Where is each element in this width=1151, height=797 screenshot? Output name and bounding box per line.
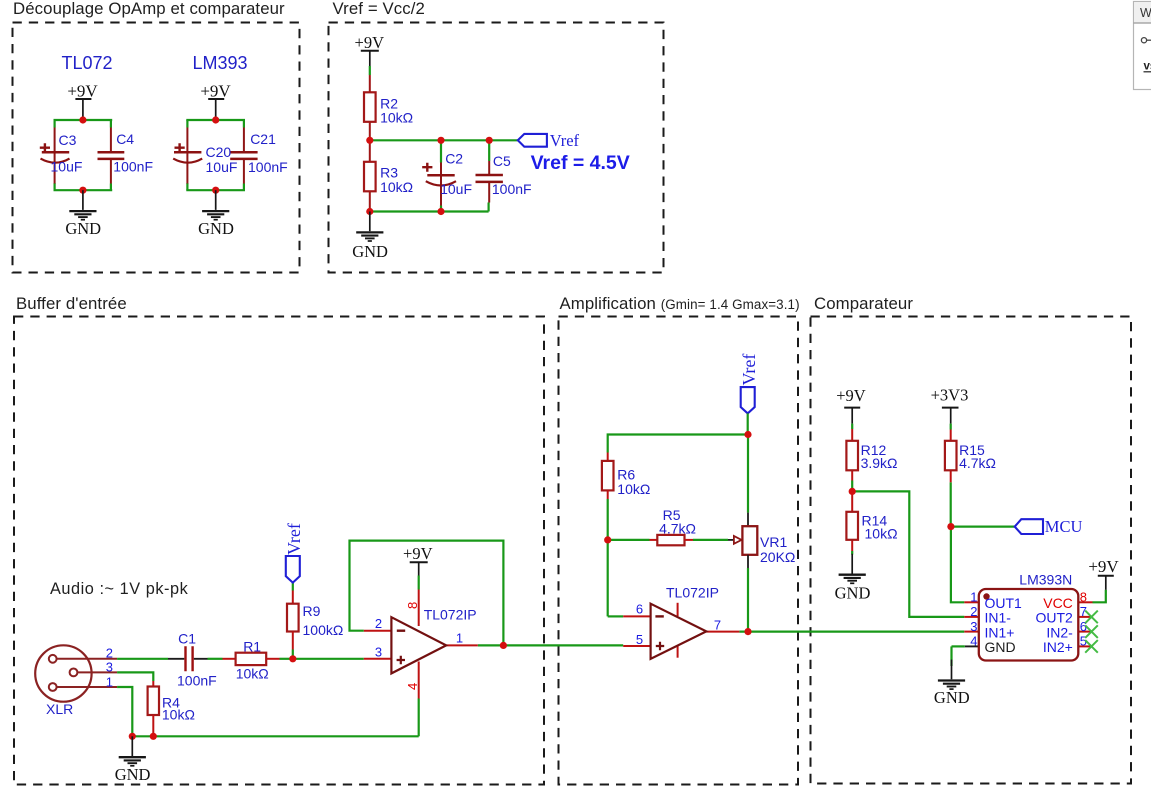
svg-text:C20: C20: [206, 144, 232, 160]
svg-text:R9: R9: [303, 603, 321, 619]
svg-text:10kΩ: 10kΩ: [162, 706, 195, 722]
svg-text:1: 1: [970, 590, 977, 605]
svg-text:100nF: 100nF: [177, 673, 217, 689]
svg-text:3: 3: [970, 619, 977, 634]
svg-text:TL072IP: TL072IP: [424, 607, 477, 623]
svg-text:+9V: +9V: [67, 82, 98, 101]
svg-text:3.9kΩ: 3.9kΩ: [861, 455, 898, 471]
svg-text:Vref = 4.5V: Vref = 4.5V: [531, 152, 630, 174]
svg-text:LM393N: LM393N: [1019, 572, 1072, 588]
svg-text:Découplage OpAmp et comparateu: Découplage OpAmp et comparateur: [13, 0, 285, 18]
svg-text:MCU: MCU: [1045, 517, 1083, 536]
svg-text:C4: C4: [116, 131, 134, 147]
svg-text:4.7kΩ: 4.7kΩ: [659, 521, 696, 537]
svg-text:2: 2: [106, 645, 113, 660]
svg-text:IN2-: IN2-: [1046, 624, 1073, 640]
svg-text:TL072IP: TL072IP: [666, 585, 719, 601]
svg-text:Vref: Vref: [550, 131, 580, 150]
svg-text:7: 7: [714, 618, 721, 633]
svg-text:10kΩ: 10kΩ: [380, 179, 413, 195]
svg-text:10uF: 10uF: [51, 159, 83, 175]
svg-text:+3V3: +3V3: [931, 386, 969, 405]
svg-text:100kΩ: 100kΩ: [303, 622, 344, 638]
svg-text:XLR: XLR: [46, 701, 73, 717]
svg-text:Vref: Vref: [284, 523, 304, 555]
svg-text:Buffer d'entrée: Buffer d'entrée: [16, 294, 127, 313]
svg-text:20KΩ: 20KΩ: [760, 549, 795, 565]
svg-text:R6: R6: [617, 466, 635, 482]
svg-text:8: 8: [1080, 590, 1087, 605]
svg-text:3: 3: [106, 660, 113, 675]
svg-text:4: 4: [970, 634, 977, 649]
svg-text:IN1+: IN1+: [985, 624, 1015, 640]
svg-text:100nF: 100nF: [492, 181, 532, 197]
svg-text:6: 6: [636, 602, 643, 617]
svg-text:GND: GND: [198, 219, 234, 238]
svg-text:Vref: Vref: [739, 354, 759, 386]
svg-text:8: 8: [405, 602, 420, 609]
svg-text:C21: C21: [250, 131, 276, 147]
svg-text:GND: GND: [115, 765, 151, 784]
svg-text:10kΩ: 10kΩ: [865, 525, 898, 541]
svg-text:5: 5: [636, 632, 643, 647]
svg-text:C3: C3: [59, 132, 77, 148]
svg-text:2: 2: [970, 604, 977, 619]
svg-text:Vref = Vcc/2: Vref = Vcc/2: [333, 0, 425, 18]
svg-text:+9V: +9V: [355, 33, 385, 52]
svg-text:100nF: 100nF: [113, 159, 153, 175]
svg-text:10kΩ: 10kΩ: [380, 110, 413, 126]
svg-text:1: 1: [106, 675, 113, 690]
svg-text:+9V: +9V: [1088, 557, 1119, 576]
svg-text:OUT1: OUT1: [985, 595, 1023, 611]
svg-text:+9V: +9V: [836, 386, 866, 405]
svg-text:IN2+: IN2+: [1043, 639, 1073, 655]
svg-text:2: 2: [375, 616, 382, 631]
svg-text:3: 3: [375, 645, 382, 660]
svg-text:Amplification (Gmin= 1.4 Gmax=: Amplification (Gmin= 1.4 Gmax=3.1): [560, 294, 800, 313]
svg-text:C2: C2: [445, 150, 463, 166]
svg-text:Wi: Wi: [1140, 6, 1151, 20]
svg-text:VCC: VCC: [1043, 595, 1073, 611]
svg-text:10uF: 10uF: [440, 181, 472, 197]
svg-text:4: 4: [405, 683, 420, 690]
svg-text:Audio :~ 1V pk-pk: Audio :~ 1V pk-pk: [50, 580, 189, 598]
svg-text:10kΩ: 10kΩ: [236, 666, 269, 682]
svg-text:GND: GND: [352, 242, 388, 261]
svg-text:GND: GND: [934, 688, 970, 707]
svg-text:GND: GND: [985, 639, 1016, 655]
svg-text:LM393: LM393: [192, 53, 247, 73]
svg-text:1: 1: [456, 630, 463, 645]
svg-text:GND: GND: [835, 584, 871, 603]
svg-text:10kΩ: 10kΩ: [617, 481, 650, 497]
svg-text:+9V: +9V: [200, 82, 231, 101]
svg-text:C1: C1: [178, 631, 196, 647]
svg-text:Comparateur: Comparateur: [814, 294, 913, 313]
svg-text:10uF: 10uF: [206, 159, 238, 175]
svg-text:R1: R1: [243, 638, 261, 654]
svg-text:C5: C5: [493, 153, 511, 169]
svg-text:VR1: VR1: [760, 534, 787, 550]
svg-text:OUT2: OUT2: [1035, 610, 1073, 626]
svg-text:vs: vs: [1144, 61, 1151, 73]
svg-text:100nF: 100nF: [248, 159, 288, 175]
svg-text:+9V: +9V: [403, 544, 433, 563]
svg-text:GND: GND: [65, 219, 101, 238]
svg-text:IN1-: IN1-: [985, 610, 1012, 626]
svg-text:TL072: TL072: [61, 53, 112, 73]
svg-text:4.7kΩ: 4.7kΩ: [959, 455, 996, 471]
